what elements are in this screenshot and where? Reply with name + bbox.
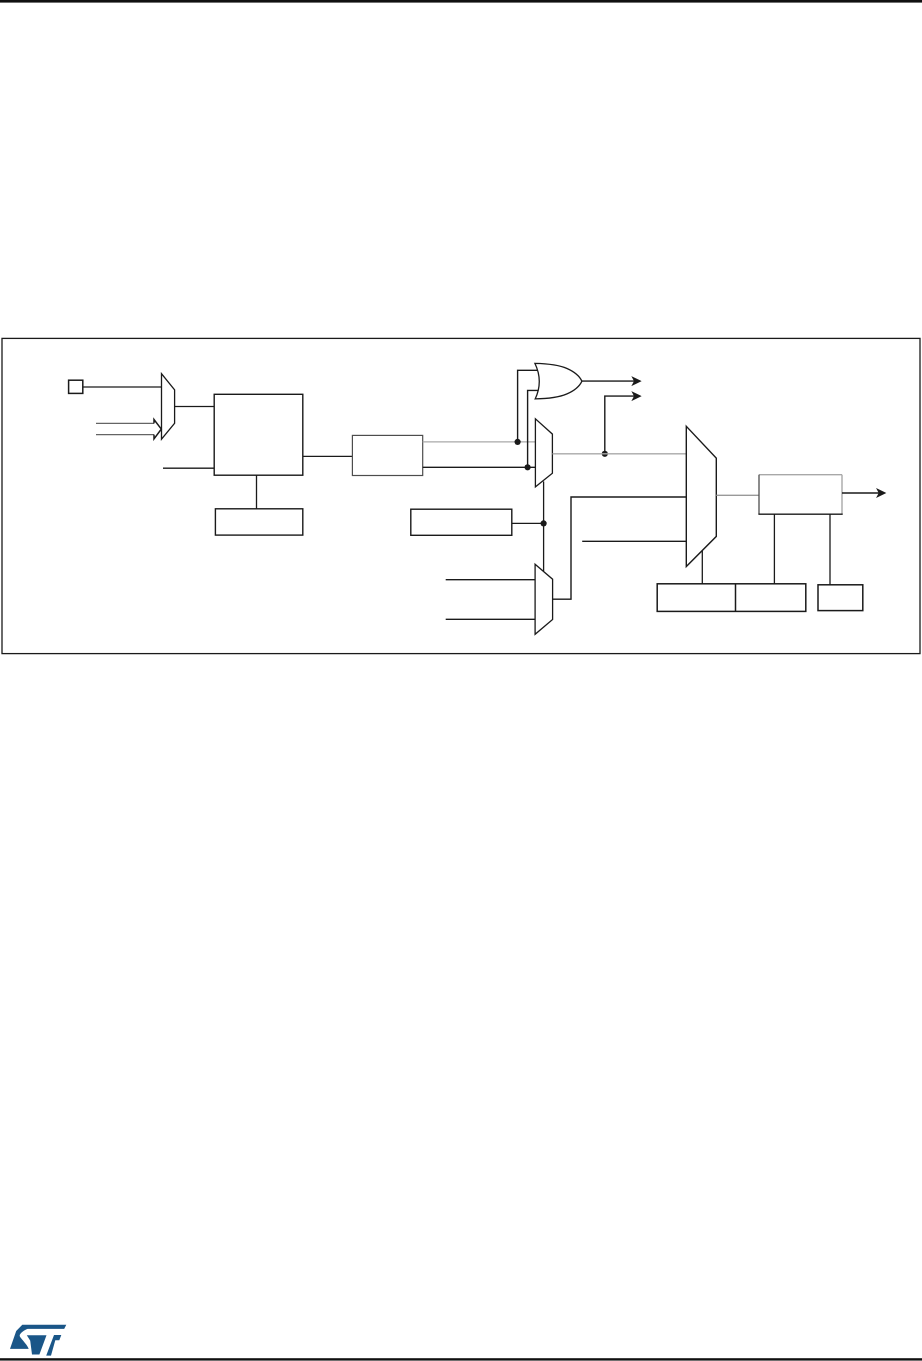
B6 output wire with arrow	[842, 492, 880, 494]
wire (stub) into B1 left	[163, 467, 214, 469]
junction node on mux M2 output	[602, 451, 608, 457]
wire B1 to prescaler	[303, 455, 353, 457]
mux M2 output wire (gray) to mux M4	[552, 453, 686, 455]
mux M3 input wire 2	[446, 618, 535, 620]
wire prescaler bottom output to mux M2	[423, 466, 536, 468]
junction node below mux M2	[541, 520, 547, 526]
mux M4	[686, 426, 716, 566]
wire (stub) input to mux M4	[582, 540, 686, 542]
output block B6 (gray/black edges)	[758, 475, 842, 515]
OR gate output wire with arrow	[582, 380, 635, 382]
counter block B1	[214, 394, 303, 475]
register box B4	[411, 509, 512, 535]
wire B6 to double box B5	[773, 514, 775, 584]
wire up to OR gate input 2	[528, 390, 540, 467]
OR gate G1	[535, 363, 582, 399]
mux M3	[535, 564, 553, 634]
branch wire with arrow (from gray output node)	[605, 396, 636, 454]
wire up to OR gate input 1	[518, 370, 539, 442]
mux M1	[162, 374, 175, 440]
wire mux M1 to counter box	[175, 406, 215, 408]
register box B2	[215, 509, 302, 535]
small box B7	[818, 585, 863, 611]
wire prescaler top output (gray) to mux M2	[423, 441, 536, 443]
wire B6 to small box B7	[829, 514, 831, 585]
wire mux M2 down to mux M3	[543, 482, 545, 572]
junction node on black wire	[525, 464, 531, 470]
mux M3 input wire 1	[446, 579, 535, 581]
wire mux M4 output (gray) to B6	[716, 494, 759, 496]
wire B1 to register box B2	[256, 475, 258, 509]
ST logo	[10, 1325, 66, 1356]
wire mux M4 down to box B5	[701, 551, 703, 584]
wire pad to mux M1	[83, 386, 162, 388]
header rule	[0, 0, 922, 3]
double register box B5	[657, 584, 806, 612]
junction node on gray wire	[515, 439, 521, 445]
wire mux M3 output up to mux M4	[553, 497, 687, 599]
figure frame	[2, 338, 920, 653]
prescaler block B3	[352, 435, 422, 475]
footer rule	[0, 1358, 922, 1360]
internal clock bus arrow (open block arrow)	[96, 420, 161, 439]
wire B4 to junction	[512, 522, 544, 524]
input pad square	[69, 380, 83, 393]
mux M2	[535, 419, 552, 487]
